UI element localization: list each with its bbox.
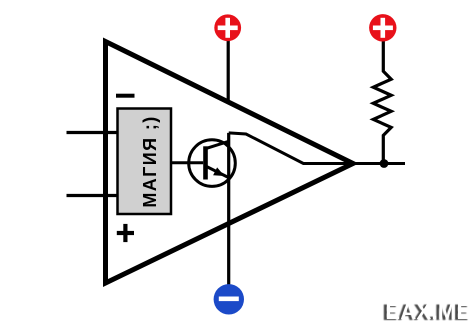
svg-text:МАГИЯ ;): МАГИЯ ;)	[140, 115, 160, 207]
svg-text:EAX.ME: EAX.ME	[385, 299, 471, 324]
